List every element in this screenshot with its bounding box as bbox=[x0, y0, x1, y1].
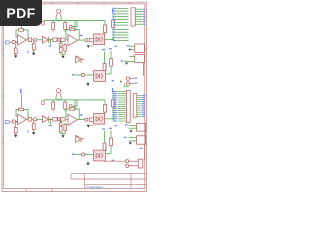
svg-text:OnePlusElec: OnePlusElec bbox=[86, 185, 104, 189]
